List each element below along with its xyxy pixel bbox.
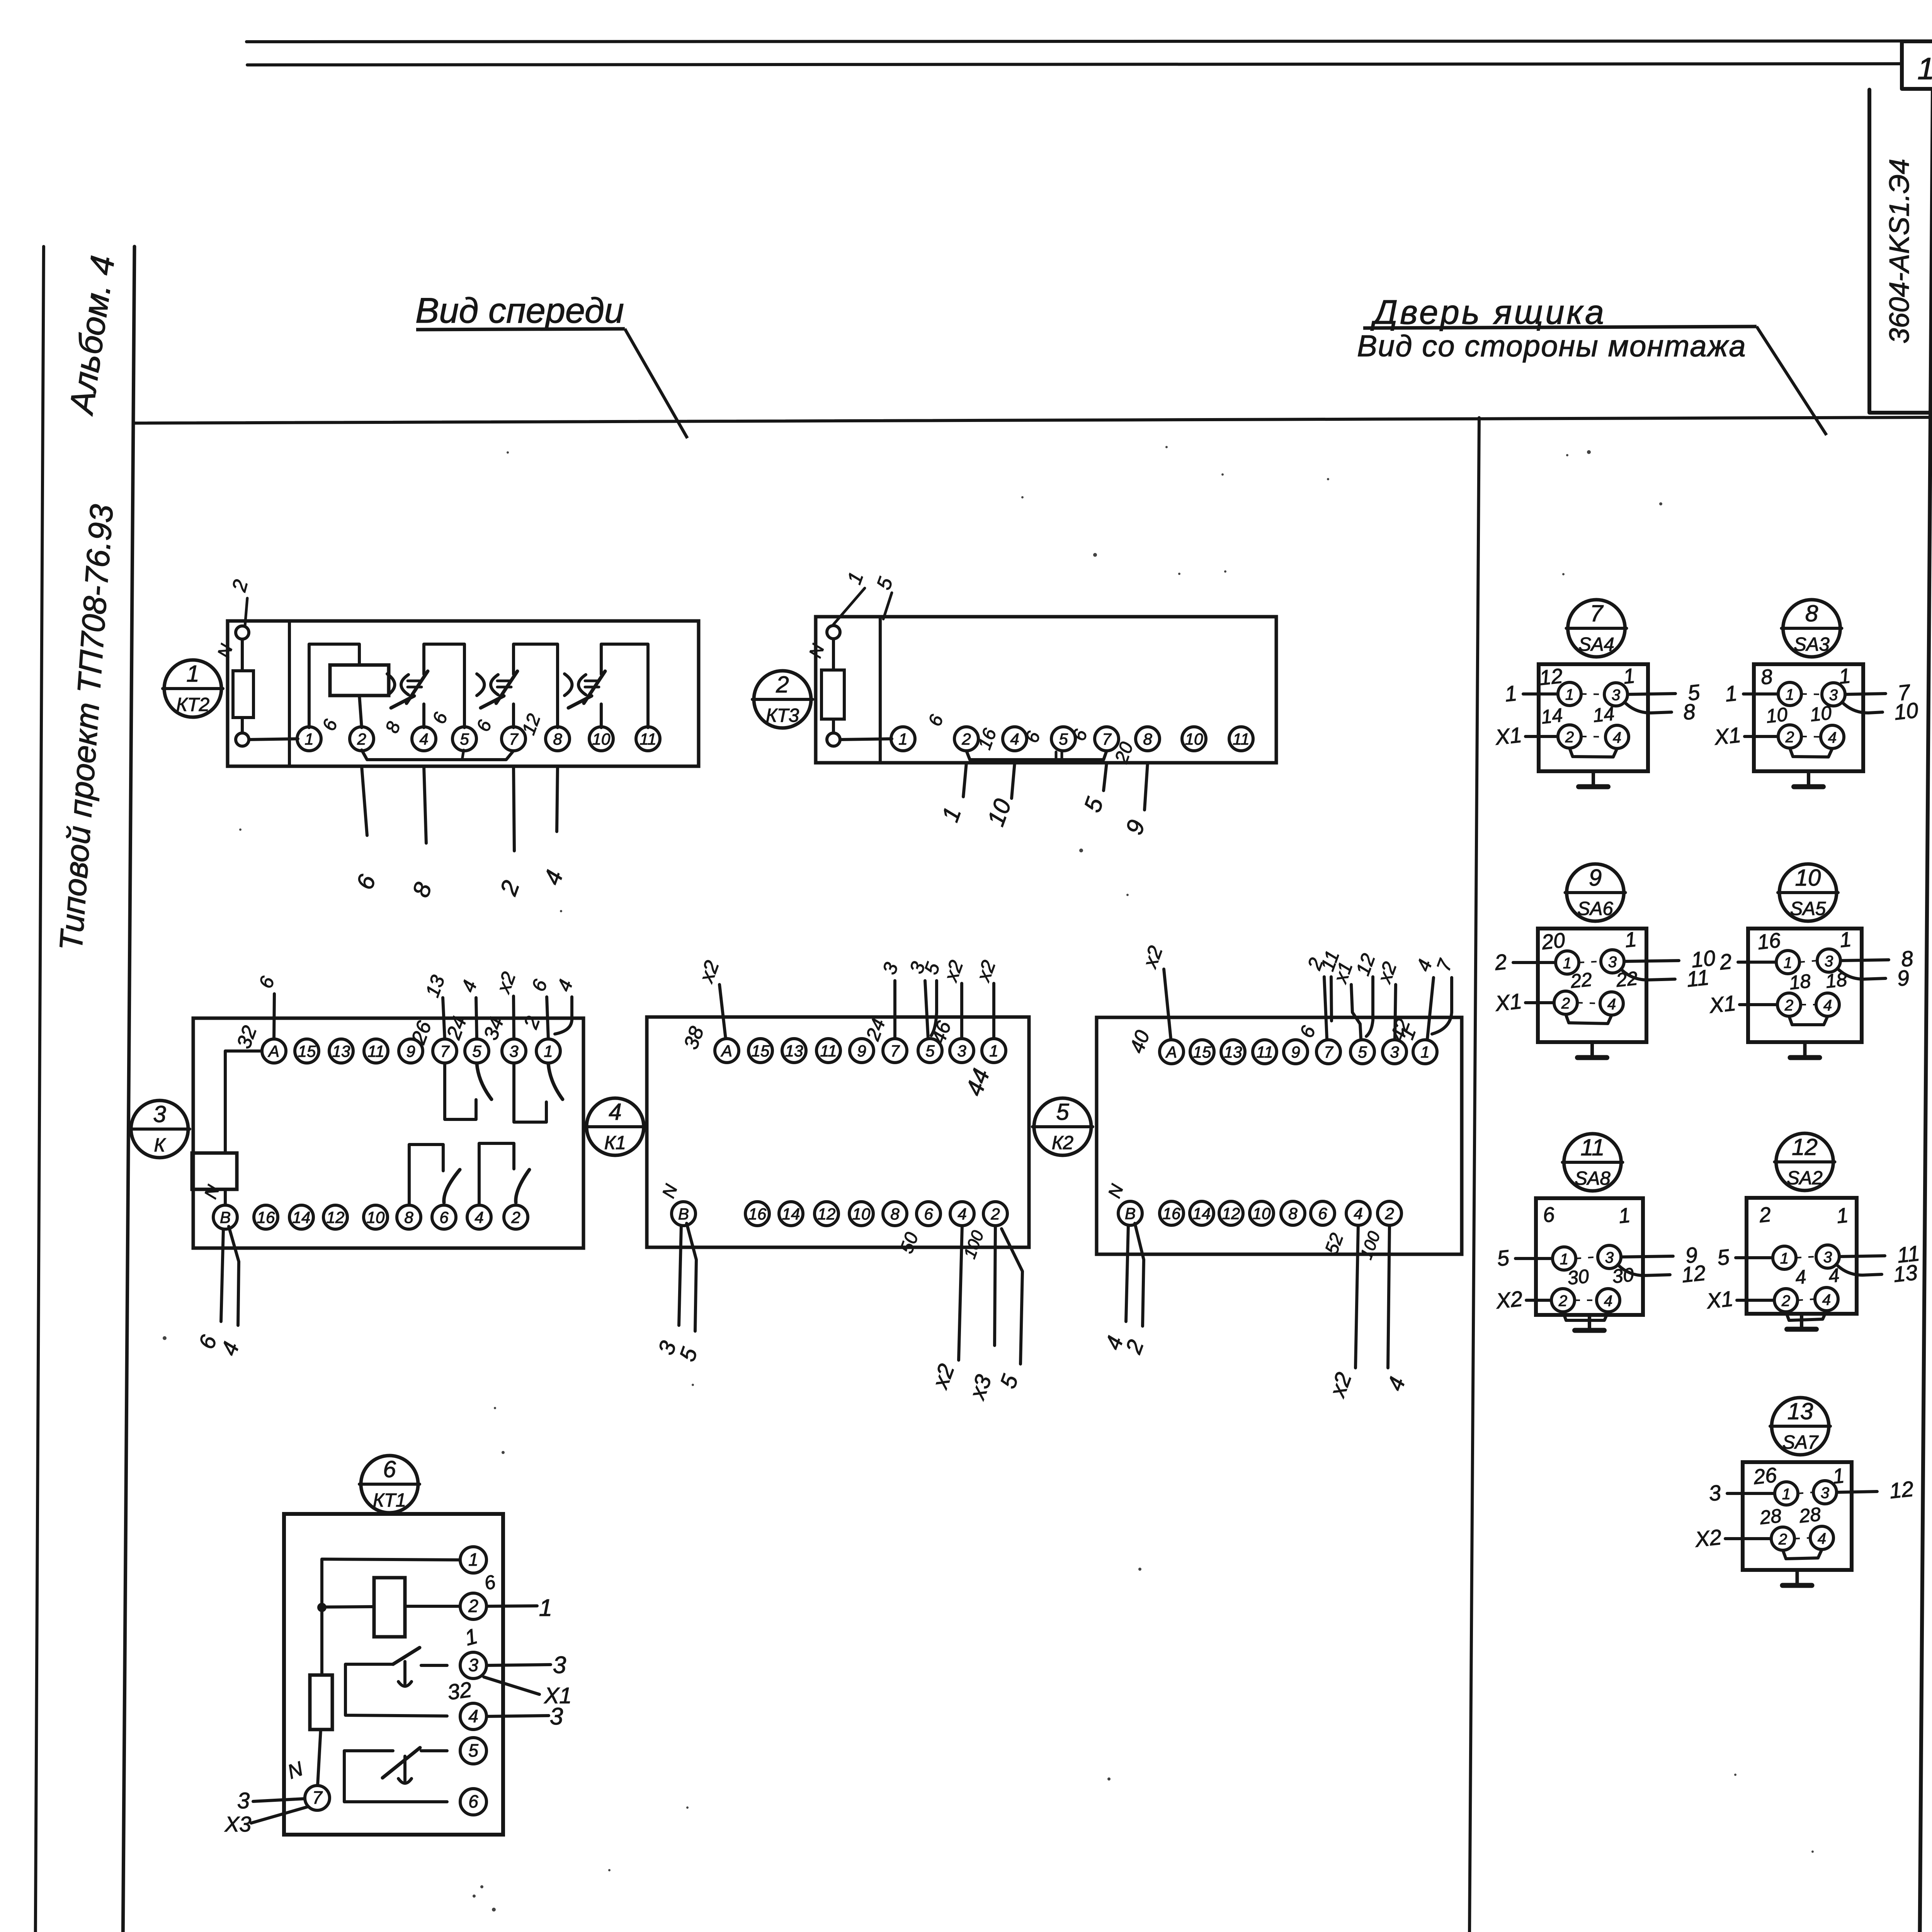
svg-text:4: 4 xyxy=(1828,729,1837,746)
svg-text:32: 32 xyxy=(446,1677,473,1704)
relay K2 bottom pin В xyxy=(1118,1201,1142,1225)
svg-text:3: 3 xyxy=(1821,1485,1829,1502)
svg-text:1: 1 xyxy=(1563,955,1571,972)
svg-text:3: 3 xyxy=(1390,1043,1399,1061)
svg-text:1: 1 xyxy=(1560,1251,1568,1268)
KT3 pin 11 xyxy=(1229,727,1253,751)
relay K bottom pin 14 xyxy=(289,1205,313,1229)
svg-text:4: 4 xyxy=(1794,1266,1807,1289)
KT2 pin 10 xyxy=(589,727,613,751)
relay K bottom pin 4 xyxy=(467,1205,491,1229)
svg-text:3: 3 xyxy=(468,1655,478,1675)
svg-text:1: 1 xyxy=(304,730,313,748)
switch SA4 designator 7/SA4 xyxy=(1568,600,1625,657)
SA3 left wire Х1 xyxy=(1745,735,1778,738)
SA2 left wire 5 xyxy=(1736,1256,1773,1259)
svg-text:7: 7 xyxy=(890,1042,900,1060)
svg-text:1: 1 xyxy=(1832,1464,1845,1488)
wire coil K to pin B xyxy=(224,1189,227,1205)
KT3 pin 5 xyxy=(1051,727,1075,751)
svg-text:2: 2 xyxy=(1784,997,1793,1014)
svg-text:5: 5 xyxy=(1056,1099,1069,1125)
SA2 pin 4 xyxy=(1815,1287,1838,1311)
svg-text:8: 8 xyxy=(1682,699,1697,724)
KT3 pin 10 xyxy=(1182,727,1206,751)
svg-text:16: 16 xyxy=(257,1208,275,1226)
relay K1 top pin 3 xyxy=(950,1039,974,1063)
SA6 ground symbol xyxy=(1590,1042,1594,1058)
svg-text:1: 1 xyxy=(1835,1204,1849,1228)
svg-text:4: 4 xyxy=(1607,996,1616,1013)
SA4 ground symbol xyxy=(1592,771,1595,787)
SA7 dashed row links xyxy=(1798,1492,1813,1493)
right inner border xyxy=(1915,90,1932,1932)
svg-text:Дверь ящика: Дверь ящика xyxy=(1370,293,1606,331)
svg-text:1: 1 xyxy=(544,1042,553,1060)
svg-text:30: 30 xyxy=(1566,1265,1590,1289)
KT1 pin 1 xyxy=(460,1547,486,1573)
relay K1 top pin 1 xyxy=(982,1039,1006,1063)
svg-text:3: 3 xyxy=(1823,1249,1832,1266)
K contact pins 8-6 xyxy=(409,1145,443,1205)
wire x2 above K1 pin 3 xyxy=(960,983,963,1039)
wire 3 to pin 7 xyxy=(253,1799,304,1801)
SA5 right wire 9 xyxy=(1837,968,1886,979)
svg-text:26: 26 xyxy=(1752,1463,1778,1489)
relay K1 bottom pin 10 xyxy=(849,1202,873,1226)
switch SA8 body xyxy=(1536,1198,1643,1315)
SA3 pin 2 xyxy=(1778,725,1801,748)
svg-text:2: 2 xyxy=(1781,1293,1790,1310)
KT2 input terminal bottom xyxy=(236,733,249,746)
SA6 dashed row links xyxy=(1579,961,1601,963)
svg-text:SA3: SA3 xyxy=(1794,634,1830,655)
sheet top edge line 2 xyxy=(247,64,1902,65)
SA8 right wire 12 xyxy=(1618,1265,1670,1276)
svg-text:9: 9 xyxy=(857,1042,866,1060)
svg-text:4: 4 xyxy=(419,730,428,748)
switch SA3 body xyxy=(1754,664,1863,771)
SA6 pin 2 xyxy=(1554,991,1577,1014)
relay K2 top pin 11 xyxy=(1253,1040,1277,1064)
svg-text:1: 1 xyxy=(1617,1204,1631,1228)
SA8 pin 4 xyxy=(1597,1289,1620,1312)
KT2 pin 7 xyxy=(502,727,526,751)
time relay KT3 designator 2/KT3 xyxy=(754,671,811,728)
SA5 pin 3 xyxy=(1817,949,1840,972)
svg-text:3: 3 xyxy=(509,1042,518,1060)
svg-text:2: 2 xyxy=(961,730,971,748)
KT2 input terminal top xyxy=(236,626,249,639)
SA3 pin 1 xyxy=(1778,682,1801,706)
SA3 left wire 1 xyxy=(1743,692,1778,696)
KT1 pin 5 xyxy=(460,1738,486,1764)
svg-text:4: 4 xyxy=(1354,1204,1362,1223)
svg-text:SA2: SA2 xyxy=(1787,1168,1823,1189)
svg-text:10: 10 xyxy=(1893,698,1920,724)
svg-text:4: 4 xyxy=(1010,730,1019,748)
svg-text:4: 4 xyxy=(474,1208,483,1226)
KT3 pin 8 xyxy=(1136,727,1160,751)
relay KT3 body xyxy=(816,617,1276,763)
relay K2 bottom pin 4 xyxy=(1346,1201,1370,1225)
relay K bottom pin 10 xyxy=(364,1205,388,1229)
SA5 pin 4 xyxy=(1816,993,1839,1016)
svg-text:9: 9 xyxy=(1896,965,1911,991)
svg-text:SA7: SA7 xyxy=(1782,1432,1819,1453)
svg-text:1: 1 xyxy=(1786,686,1794,703)
left outer border xyxy=(32,247,44,1932)
SA6 left wire Х1 xyxy=(1526,1001,1554,1004)
svg-text:1: 1 xyxy=(1724,681,1738,706)
wires 2 11 above K2 pin 7 xyxy=(1324,977,1327,1039)
view label: Дверь ящика xyxy=(1357,293,1827,435)
svg-text:1: 1 xyxy=(1838,664,1852,689)
svg-text:1: 1 xyxy=(1420,1043,1429,1061)
wires 3 5 above K1 pin 5 xyxy=(925,981,928,1039)
switch SA3 designator 8/SA3 xyxy=(1783,600,1840,657)
svg-text:10: 10 xyxy=(852,1205,871,1223)
wire 3 above K1 pin 7 xyxy=(893,981,896,1039)
wire 1 from pin 2 xyxy=(486,1606,537,1606)
wire 12 above K2 xyxy=(1366,977,1373,1036)
scan speckles (noise) xyxy=(163,446,1837,1932)
svg-text:Х2: Х2 xyxy=(1494,1286,1524,1313)
SA7 right wire 12 xyxy=(1837,1492,1877,1492)
KT2 time-delay contact 2 xyxy=(514,644,558,728)
svg-text:4: 4 xyxy=(468,1706,478,1726)
svg-text:10: 10 xyxy=(1253,1204,1271,1223)
SA8 pin 2 xyxy=(1551,1289,1575,1312)
SA8 jumper pins 2-4 xyxy=(1563,1312,1608,1320)
svg-text:4: 4 xyxy=(609,1099,621,1125)
SA5 right wire 8 xyxy=(1840,960,1889,961)
svg-text:1: 1 xyxy=(186,661,199,687)
svg-text:2: 2 xyxy=(511,1208,520,1226)
svg-text:6: 6 xyxy=(1318,1204,1327,1223)
SA3 right wire 10 xyxy=(1842,702,1883,713)
KT2 pin 8 xyxy=(546,727,570,751)
relay KT1 body xyxy=(284,1514,503,1835)
svg-text:1: 1 xyxy=(1624,928,1638,952)
SA5 pin 1 xyxy=(1776,951,1799,974)
relay K top pin 13 xyxy=(329,1039,353,1063)
KT2 time-delay contact 3 xyxy=(601,644,648,728)
relay K1 bottom pin 8 xyxy=(883,1202,907,1226)
svg-text:8: 8 xyxy=(1143,730,1152,748)
SA2 jumper pins 2-4 xyxy=(1786,1311,1827,1320)
svg-text:12: 12 xyxy=(1792,1134,1818,1160)
K1 wires below pin B xyxy=(679,1226,681,1325)
SA5 left wire 2 xyxy=(1738,961,1776,964)
svg-text:6: 6 xyxy=(924,1205,933,1223)
relay K1 top pin 15 xyxy=(748,1039,772,1063)
svg-text:4: 4 xyxy=(1822,1291,1831,1308)
SA5 dashed row links xyxy=(1799,961,1817,962)
SA2 pin 3 xyxy=(1816,1245,1839,1268)
svg-text:12: 12 xyxy=(1222,1204,1240,1223)
relay K1 body xyxy=(647,1017,1029,1247)
svg-text:А: А xyxy=(267,1042,279,1060)
relay K top pin А xyxy=(262,1039,286,1063)
KT1 time contact 3-4 xyxy=(345,1664,447,1716)
sheet number box xyxy=(1902,41,1932,89)
KT1 pin 2 xyxy=(460,1593,486,1619)
svg-text:2: 2 xyxy=(1565,729,1574,746)
svg-text:8: 8 xyxy=(1288,1204,1298,1223)
SA7 left wire 3 xyxy=(1727,1492,1775,1495)
SA3 right wire 7 xyxy=(1845,694,1886,694)
svg-text:13: 13 xyxy=(332,1042,350,1060)
svg-text:Х1: Х1 xyxy=(1493,989,1523,1016)
relay K2 bottom pin 16 xyxy=(1160,1201,1184,1225)
coil of K xyxy=(192,1153,237,1189)
svg-text:2: 2 xyxy=(1561,995,1570,1012)
relay K1 bottom pin 4 xyxy=(950,1202,974,1226)
svg-text:В: В xyxy=(1125,1204,1136,1223)
sheet top edge line 1 xyxy=(247,41,1932,42)
switch SA5 body xyxy=(1748,929,1862,1042)
left inner border xyxy=(118,247,134,1932)
SA4 pin 3 xyxy=(1604,683,1628,706)
svg-text:10: 10 xyxy=(592,730,611,748)
relay K2 top pin 13 xyxy=(1221,1040,1245,1064)
SA7 jumper pins 2-4 xyxy=(1783,1549,1822,1559)
resistor in KT2 xyxy=(233,671,253,718)
time relay KT1 designator 6/KT1 xyxy=(361,1456,418,1513)
svg-text:3: 3 xyxy=(1829,687,1838,704)
svg-text:3: 3 xyxy=(1605,1249,1614,1266)
SA6 jumper pins 2-4 xyxy=(1566,1014,1612,1024)
SA7 left wire Х2 xyxy=(1725,1537,1771,1540)
svg-text:5: 5 xyxy=(472,1042,481,1060)
relay K top pin 3 xyxy=(502,1039,526,1063)
SA6 left wire 2 xyxy=(1513,961,1556,964)
relay K1 bottom pin 16 xyxy=(745,1202,769,1226)
junction node xyxy=(317,1603,327,1612)
relay K bottom pin 8 xyxy=(397,1205,421,1229)
svg-text:11: 11 xyxy=(1256,1043,1273,1061)
svg-text:14: 14 xyxy=(782,1205,800,1223)
svg-text:13: 13 xyxy=(1224,1043,1242,1061)
svg-text:16: 16 xyxy=(748,1205,767,1223)
K contact pins 3-1 xyxy=(514,1063,546,1122)
svg-text:1: 1 xyxy=(1784,954,1792,971)
SA2 pin 2 xyxy=(1774,1289,1798,1312)
svg-text:1: 1 xyxy=(898,730,907,748)
svg-text:1: 1 xyxy=(539,1595,552,1621)
svg-text:28: 28 xyxy=(1759,1505,1782,1529)
KT2 jumper wire pins 2-5-7 xyxy=(362,750,514,760)
SA6 pin 4 xyxy=(1600,992,1623,1015)
K1 wires below pin 2 xyxy=(995,1226,995,1345)
relay K designator 3/K xyxy=(131,1100,188,1158)
svg-text:9: 9 xyxy=(1589,865,1602,891)
wire X3 to pin 7 xyxy=(251,1807,308,1823)
svg-text:11: 11 xyxy=(1917,51,1932,86)
relay K bottom pin В xyxy=(213,1205,237,1229)
svg-text:1: 1 xyxy=(989,1042,998,1060)
svg-text:8: 8 xyxy=(1805,600,1818,626)
svg-text:15: 15 xyxy=(1193,1043,1211,1061)
svg-text:Х1: Х1 xyxy=(1493,723,1523,750)
document code strip xyxy=(1869,90,1932,413)
svg-text:2: 2 xyxy=(357,730,366,748)
svg-text:Х1: Х1 xyxy=(1705,1286,1735,1313)
K wires below pin B xyxy=(221,1229,223,1321)
SA7 pin 1 xyxy=(1775,1482,1798,1505)
frame top line xyxy=(134,417,1932,423)
relay K1 bottom pin 14 xyxy=(779,1202,803,1226)
K2 wires below pin B xyxy=(1126,1225,1128,1321)
svg-text:3: 3 xyxy=(553,1652,566,1679)
svg-text:14: 14 xyxy=(1193,1204,1211,1223)
KT3 wires below box xyxy=(963,763,966,797)
svg-text:22: 22 xyxy=(1569,968,1593,992)
relay K2 top pin А xyxy=(1160,1040,1184,1064)
wire KT2 bottom terminal to pin 1 xyxy=(249,739,298,740)
svg-text:4: 4 xyxy=(957,1205,966,1223)
KT2 time-delay contact 1 xyxy=(424,644,464,728)
svg-text:7: 7 xyxy=(1590,600,1604,626)
svg-text:15: 15 xyxy=(752,1042,770,1060)
SA7 pin 3 xyxy=(1813,1481,1837,1504)
wire x2 above K1 pin A xyxy=(719,985,726,1039)
svg-text:2: 2 xyxy=(1718,949,1733,975)
relay K1 top pin 5 xyxy=(918,1039,942,1063)
SA2 right wire 13 xyxy=(1836,1264,1882,1275)
vertical separator xyxy=(1467,418,1479,1932)
relay K2 bottom pin 10 xyxy=(1250,1201,1274,1225)
relay K2 top pin 3 xyxy=(1383,1040,1406,1064)
K1 wire below pin 4 xyxy=(959,1226,962,1360)
svg-text:2: 2 xyxy=(776,672,789,697)
SA2 right wire 11 xyxy=(1839,1256,1885,1257)
svg-text:3: 3 xyxy=(1825,953,1833,970)
KT3 jumper wire pins 2-7 xyxy=(966,751,1107,760)
svg-text:7: 7 xyxy=(1102,730,1112,748)
relay K2 bottom pin 2 xyxy=(1378,1201,1401,1225)
svg-text:SA4: SA4 xyxy=(1578,634,1614,655)
SA8 left wire 5 xyxy=(1515,1257,1553,1260)
wire 4 above K2 pin 1 xyxy=(1427,978,1434,1039)
K contact pins 7-5 xyxy=(445,1063,476,1119)
svg-text:8: 8 xyxy=(1760,665,1774,689)
svg-text:2: 2 xyxy=(1558,1293,1567,1310)
switch SA8 designator 11/SA8 xyxy=(1564,1134,1621,1191)
time relay KT2 designator 1/KT2 xyxy=(164,660,221,717)
KT3 pin 1 xyxy=(891,727,915,751)
wire 3 from pin 3 xyxy=(486,1665,551,1665)
switch SA2 body xyxy=(1747,1198,1857,1314)
KT2 pin 4 xyxy=(412,727,436,751)
svg-text:В: В xyxy=(220,1208,231,1226)
svg-text:Вид спереди: Вид спереди xyxy=(415,291,624,330)
svg-text:13: 13 xyxy=(1892,1260,1919,1287)
svg-text:1: 1 xyxy=(1782,1486,1791,1503)
svg-text:13: 13 xyxy=(1787,1398,1813,1424)
svg-text:1: 1 xyxy=(1780,1250,1789,1267)
wire pin1 to junction xyxy=(322,1559,460,1603)
svg-text:1: 1 xyxy=(468,1549,478,1570)
svg-text:4: 4 xyxy=(1613,729,1621,746)
K2 wire below pin 4 xyxy=(1355,1225,1358,1368)
KT2 pin 2 xyxy=(350,727,374,751)
SA5 left wire Х1 xyxy=(1740,1003,1777,1006)
svg-text:6: 6 xyxy=(383,1456,396,1482)
SA5 jumper pins 2-4 xyxy=(1789,1016,1828,1025)
svg-text:SA6: SA6 xyxy=(1577,898,1613,919)
svg-text:12: 12 xyxy=(1680,1260,1707,1287)
svg-text:1: 1 xyxy=(1838,928,1852,952)
switch SA4 body xyxy=(1539,664,1648,771)
svg-text:18: 18 xyxy=(1788,970,1812,994)
SA8 pin 1 xyxy=(1553,1247,1576,1270)
svg-text:15: 15 xyxy=(298,1042,316,1060)
KT3 input terminal bottom xyxy=(827,733,840,746)
KT1 time contact 5-6 xyxy=(344,1751,447,1802)
svg-text:5: 5 xyxy=(460,730,469,748)
svg-text:2: 2 xyxy=(1778,1531,1787,1548)
SA3 dashed row links xyxy=(1801,694,1822,694)
KT2 pin 5 xyxy=(452,727,476,751)
relay K top pin 1 xyxy=(536,1039,560,1063)
SA6 right wire 10 xyxy=(1624,961,1679,961)
svg-text:8: 8 xyxy=(404,1208,413,1226)
relay K1 designator 4/K1 xyxy=(587,1098,644,1155)
svg-text:7: 7 xyxy=(509,730,519,748)
KT1 pin 3 xyxy=(460,1652,486,1679)
K2 wires below pin 2 xyxy=(1388,1225,1389,1368)
svg-text:3: 3 xyxy=(550,1703,563,1730)
SA8 right wire 9 xyxy=(1621,1256,1673,1257)
svg-text:А: А xyxy=(1165,1043,1177,1061)
relay K bottom pin 6 xyxy=(432,1205,456,1229)
svg-text:18: 18 xyxy=(1825,968,1848,992)
switch SA6 designator 9/SA6 xyxy=(1567,864,1624,921)
svg-text:К: К xyxy=(154,1135,167,1156)
KT3 pin 4 xyxy=(1003,727,1027,751)
relay K1 top pin 9 xyxy=(850,1039,874,1063)
wire pin2 to coil xyxy=(405,1605,460,1608)
relay K2 top pin 5 xyxy=(1350,1040,1374,1064)
svg-text:5: 5 xyxy=(925,1042,935,1060)
svg-text:10: 10 xyxy=(1185,730,1203,748)
svg-text:11: 11 xyxy=(1580,1134,1604,1160)
wire coil to junction xyxy=(322,1607,374,1607)
wire X1 from pin 3 xyxy=(484,1677,539,1694)
svg-text:28: 28 xyxy=(1798,1503,1822,1527)
relay K1 bottom pin 12 xyxy=(815,1202,838,1226)
svg-text:7: 7 xyxy=(312,1787,323,1808)
svg-text:10: 10 xyxy=(1809,702,1833,726)
svg-text:9: 9 xyxy=(406,1042,415,1060)
svg-text:11: 11 xyxy=(820,1042,837,1060)
svg-text:КТ3: КТ3 xyxy=(766,705,799,726)
resistor in KT3 xyxy=(821,670,844,719)
relay K bottom pin 16 xyxy=(254,1205,278,1229)
relay KT2 body xyxy=(228,621,699,766)
svg-text:10: 10 xyxy=(1765,703,1789,727)
SA7 pin 2 xyxy=(1771,1527,1794,1550)
wire coil bottom to pin2 xyxy=(359,696,362,728)
svg-text:8: 8 xyxy=(553,730,562,748)
wire x1 above K2 pin 5 xyxy=(1351,985,1361,1039)
relay K top pin 9 xyxy=(399,1039,423,1063)
relay K2 bottom pin 8 xyxy=(1281,1201,1305,1225)
svg-text:3604-AKS1.Э4: 3604-AKS1.Э4 xyxy=(1884,159,1915,344)
switch SA5 designator 10/SA5 xyxy=(1779,864,1837,921)
